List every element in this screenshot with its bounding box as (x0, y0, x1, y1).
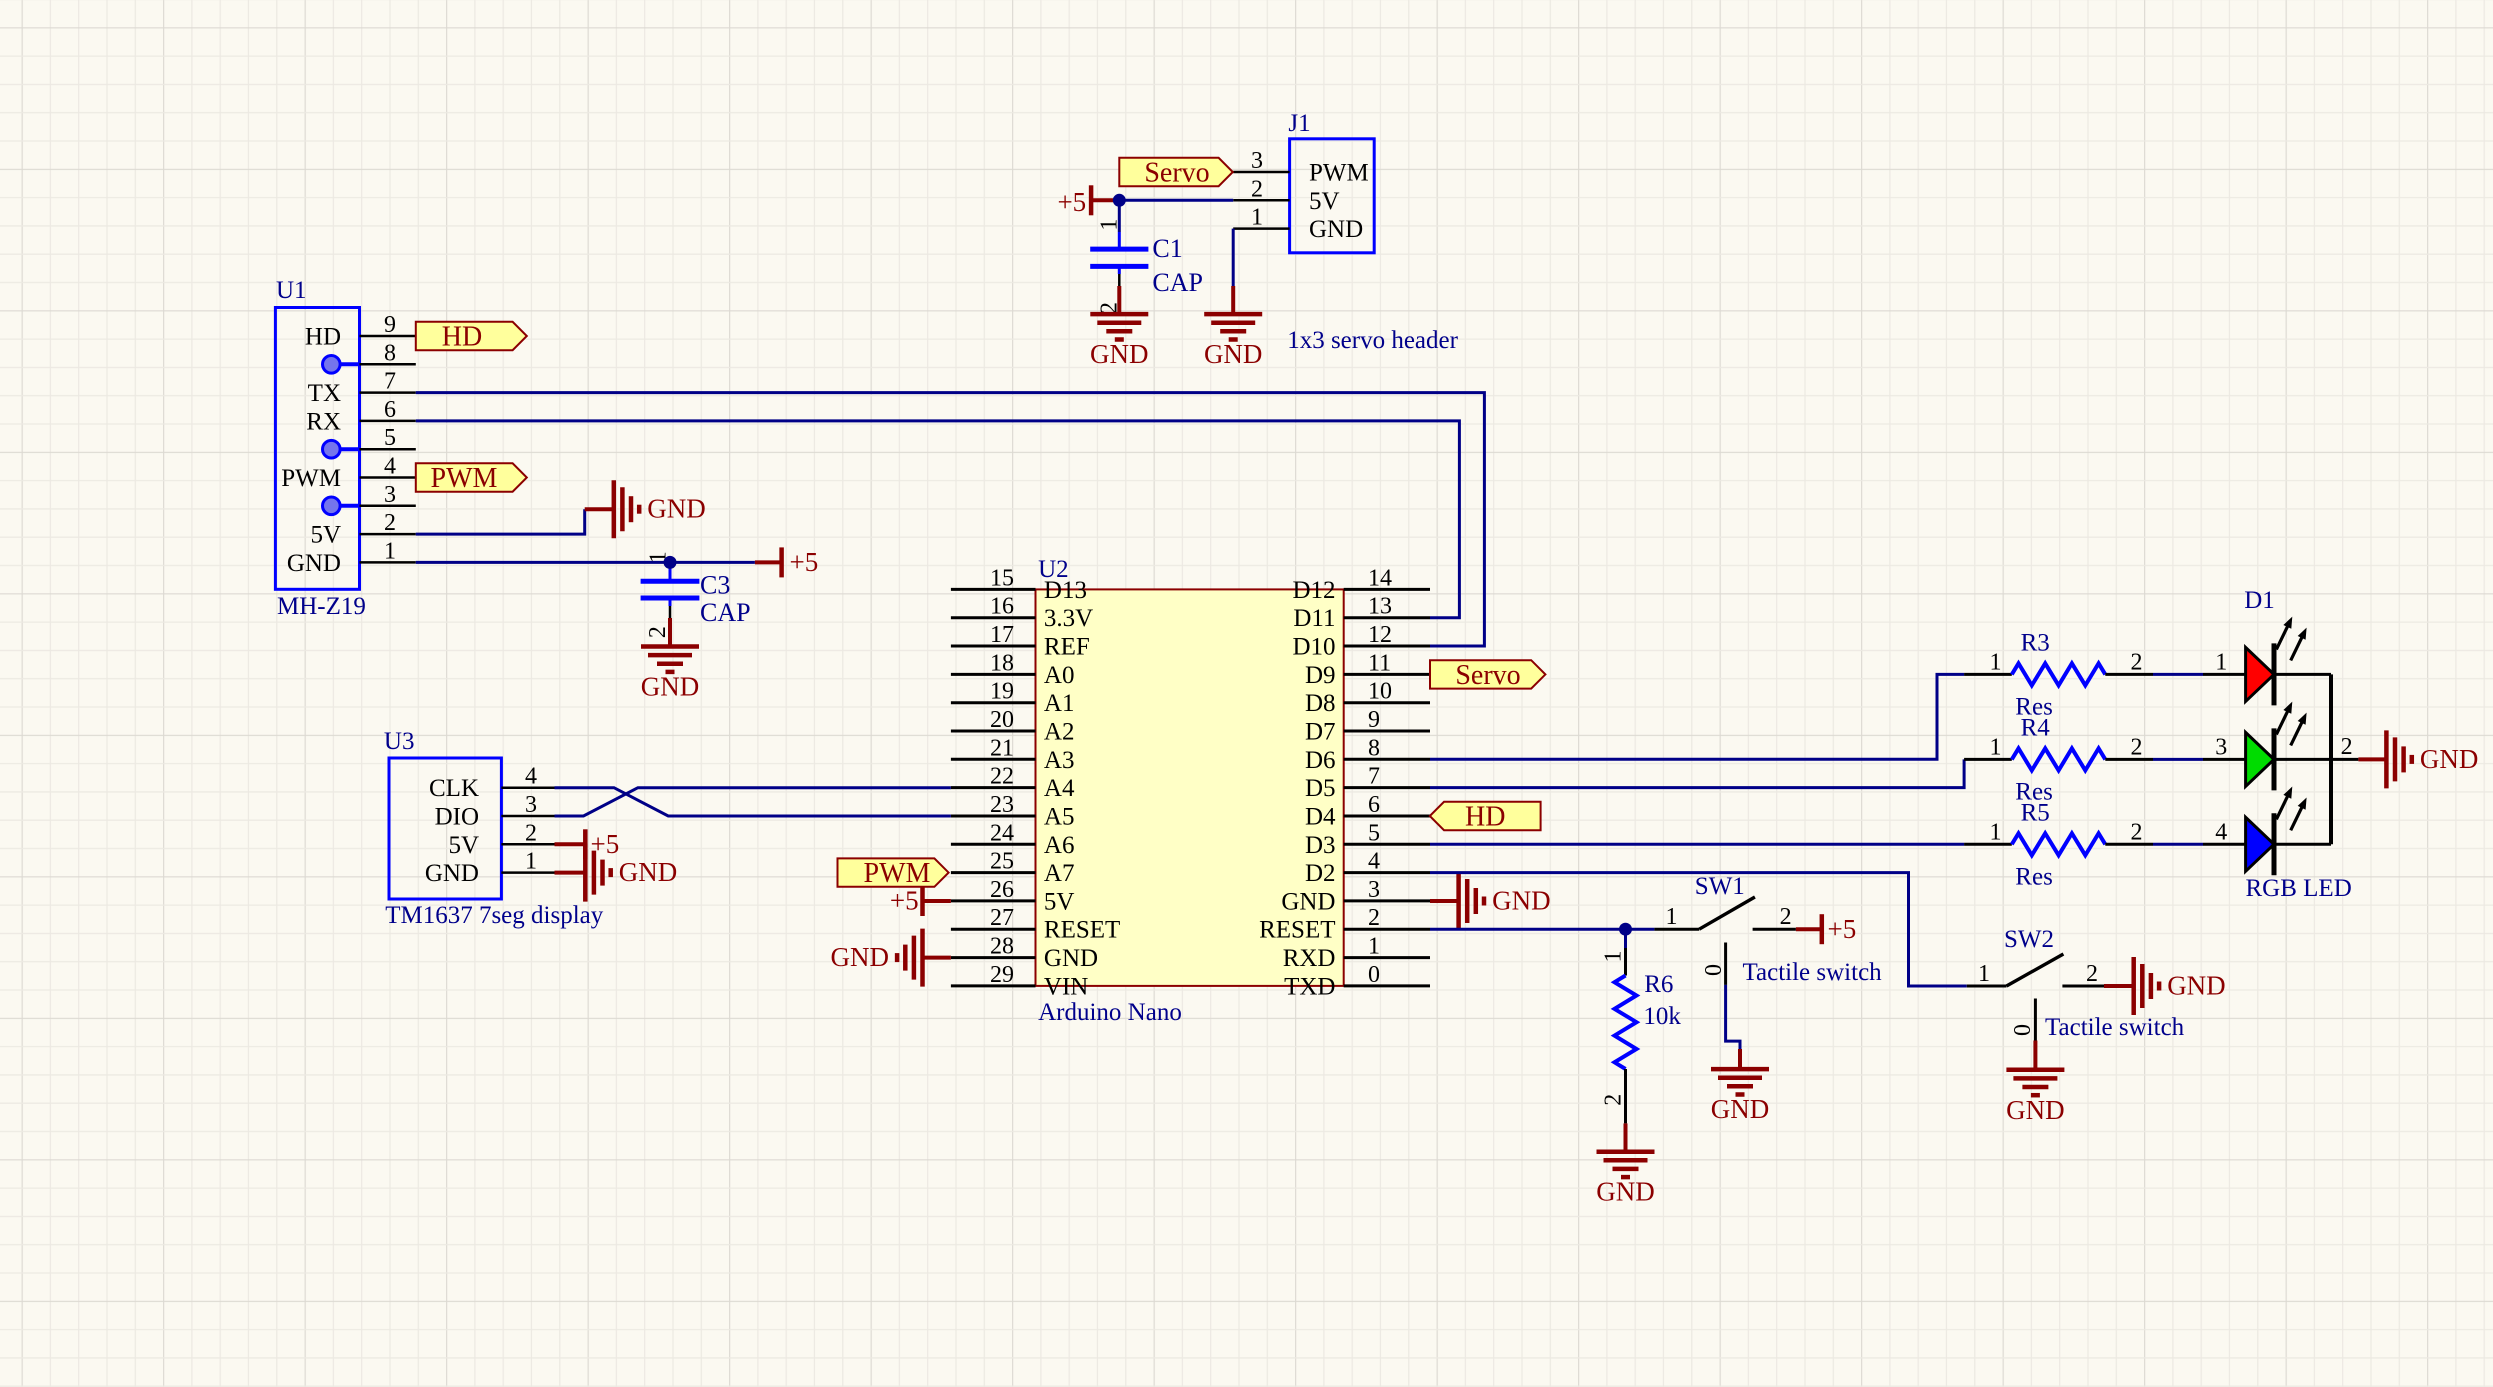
svg-text:3: 3 (384, 482, 396, 508)
harness label HD (U1 pin 9) (416, 322, 527, 350)
svg-text:Tactile switch: Tactile switch (1743, 959, 1883, 986)
U1 pin 6 (360, 420, 416, 423)
svg-text:RESET: RESET (1044, 917, 1120, 944)
svg-text:5V: 5V (448, 832, 479, 859)
svg-text:RESET: RESET (1259, 917, 1335, 944)
svg-text:GND: GND (2006, 1095, 2065, 1125)
svg-text:1: 1 (1251, 205, 1263, 231)
U2 pin 4 (D2) (1344, 871, 1430, 874)
wire U1 5V pin to GND (416, 509, 585, 534)
svg-text:8: 8 (384, 340, 396, 366)
J1 pin 1 (1233, 227, 1289, 230)
svg-text:GND: GND (1492, 886, 1551, 916)
svg-text:TM1637 7seg display: TM1637 7seg display (385, 902, 604, 929)
U1 no-connect dot (331, 362, 360, 366)
svg-text:1: 1 (525, 849, 537, 875)
svg-text:GND: GND (1281, 888, 1335, 915)
svg-text:MH-Z19: MH-Z19 (277, 593, 366, 620)
svg-text:2: 2 (645, 626, 671, 638)
ground below C3 (668, 618, 672, 647)
svg-text:10: 10 (1368, 679, 1392, 705)
svg-text:1: 1 (1978, 961, 1990, 987)
U1 pin 5 (360, 448, 416, 451)
harness label PWM (U1 pin 4) (416, 463, 527, 491)
svg-text:10k: 10k (1643, 1003, 1681, 1030)
svg-text:A6: A6 (1044, 832, 1075, 859)
svg-text:8: 8 (1368, 735, 1380, 761)
svg-text:D13: D13 (1044, 577, 1087, 604)
svg-text:GND: GND (647, 494, 706, 524)
svg-text:GND: GND (1044, 945, 1098, 972)
component U3 body (389, 758, 501, 899)
svg-text:11: 11 (1368, 650, 1391, 676)
svg-text:GND: GND (641, 672, 700, 702)
svg-text:HD: HD (305, 324, 341, 351)
svg-text:3: 3 (2215, 734, 2227, 760)
U2 pin 10 (D8) (1344, 701, 1430, 704)
ground below C1 (1117, 286, 1121, 314)
svg-text:GND: GND (2167, 971, 2226, 1001)
power +5 at SW1 pin 2 (1796, 927, 1822, 931)
svg-text:5: 5 (384, 425, 396, 451)
ground below SW1 (1738, 1049, 1742, 1069)
svg-text:3: 3 (1251, 148, 1263, 174)
wire U2 D6 to R3 (1430, 674, 1964, 759)
svg-text:A1: A1 (1044, 690, 1075, 717)
U1 no-connect dot (331, 504, 360, 508)
svg-text:+5: +5 (790, 547, 819, 577)
svg-text:2: 2 (2131, 649, 2143, 675)
svg-text:GND: GND (287, 550, 341, 577)
J1 pin 3 (1233, 171, 1289, 174)
svg-text:HD: HD (1465, 802, 1505, 833)
U2 pin 24 (A6) (951, 843, 1036, 846)
svg-text:2: 2 (2341, 734, 2353, 760)
ground (right-facing) at D1 pin 2 (2358, 757, 2386, 761)
svg-text:C3: C3 (700, 570, 730, 599)
svg-text:4: 4 (525, 764, 537, 790)
svg-text:GND: GND (425, 860, 479, 887)
svg-text:1: 1 (1990, 734, 2002, 760)
LED element pin 4 of D1 (2203, 787, 2331, 876)
svg-text:GND: GND (831, 942, 890, 972)
U2 pin 29 (VIN) (951, 984, 1036, 987)
svg-text:22: 22 (990, 764, 1014, 790)
svg-text:0: 0 (1368, 962, 1380, 988)
svg-text:4: 4 (384, 454, 396, 480)
U2 pin 27 (RESET) (951, 928, 1036, 931)
svg-text:GND: GND (1204, 339, 1263, 369)
U3 pin 4 (CLK) (501, 786, 554, 789)
svg-text:PWM: PWM (1309, 160, 1369, 187)
U2 pin 12 (D10) (1344, 645, 1430, 648)
ground below R6 (1624, 1123, 1628, 1151)
svg-text:+5: +5 (890, 886, 919, 916)
svg-text:7: 7 (1368, 764, 1380, 790)
svg-text:18: 18 (990, 650, 1014, 676)
svg-text:GND: GND (1596, 1177, 1655, 1207)
svg-text:Servo: Servo (1144, 158, 1209, 189)
U2 pin 0 (TXD) (1344, 984, 1430, 987)
svg-text:GND: GND (1309, 216, 1363, 243)
U2 pin 15 (D13) (951, 588, 1036, 591)
U1 pin 4 (360, 476, 416, 479)
U2 pin 14 (D12) (1344, 588, 1430, 591)
U2 pin 18 (A0) (951, 673, 1036, 676)
svg-text:A5: A5 (1044, 804, 1075, 831)
svg-text:19: 19 (990, 679, 1014, 705)
svg-text:17: 17 (990, 622, 1014, 648)
svg-text:5V: 5V (310, 522, 341, 549)
svg-text:A7: A7 (1044, 860, 1075, 887)
svg-text:1: 1 (1097, 219, 1123, 231)
U2 pin 28 (GND) (951, 956, 1036, 959)
power +5 at U3 pin 2 (555, 842, 586, 846)
wire J1 pin 1 to ground (1232, 229, 1235, 286)
U2 pin 6 (D4) (1344, 815, 1430, 818)
resistor R3 (1964, 629, 2153, 720)
harness label HD (U2 D4) (1430, 802, 1541, 830)
power +5 at J1 pin 2 (1091, 198, 1119, 202)
node junction RESET/R6/SW1 (1619, 923, 1632, 936)
LED element pin 1 of D1 (2203, 617, 2331, 706)
svg-text:D11: D11 (1293, 605, 1335, 632)
U3 pin 2 (5V) (501, 843, 554, 846)
svg-text:REF: REF (1044, 634, 1090, 661)
svg-text:D1: D1 (2244, 587, 2275, 614)
svg-text:6: 6 (384, 397, 396, 423)
U2 pin 3 (GND) (1344, 899, 1430, 902)
resistor R5 (1964, 799, 2153, 890)
svg-text:PWM: PWM (431, 463, 498, 494)
svg-text:Servo: Servo (1455, 660, 1520, 691)
svg-text:2: 2 (1780, 904, 1792, 930)
U3 pin 1 (GND) (501, 871, 554, 874)
svg-text:D8: D8 (1305, 690, 1336, 717)
wire U1 GND pin to +5 / C3 (416, 561, 755, 564)
svg-text:21: 21 (990, 735, 1014, 761)
component U1 body (275, 308, 359, 590)
svg-text:A2: A2 (1044, 719, 1075, 746)
svg-text:1: 1 (1666, 904, 1678, 930)
U2 pin 1 (RXD) (1344, 956, 1430, 959)
power +5 at U2 5V pin 26 (923, 899, 951, 903)
svg-text:GND: GND (2420, 744, 2479, 774)
svg-text:D4: D4 (1305, 804, 1336, 831)
wire U2 RESET to SW1 and R6 (1430, 928, 1654, 931)
svg-text:PWM: PWM (281, 465, 341, 492)
svg-text:D5: D5 (1305, 775, 1336, 802)
svg-text:PWM: PWM (864, 858, 931, 889)
wire R4 to LED (2153, 758, 2203, 761)
svg-text:DIO: DIO (435, 804, 479, 831)
svg-text:SW2: SW2 (2004, 926, 2054, 953)
wire U3 CLK to U2 A5 (crossover) (555, 788, 951, 816)
svg-text:RX: RX (306, 408, 341, 435)
power +5 at C3 net (755, 560, 782, 564)
svg-text:U1: U1 (276, 277, 307, 304)
component U2 body (1036, 589, 1344, 986)
svg-text:1: 1 (1368, 934, 1380, 960)
svg-text:1: 1 (1601, 951, 1627, 963)
svg-text:A4: A4 (1044, 775, 1075, 802)
svg-text:TX: TX (308, 380, 341, 407)
svg-text:Arduino Nano: Arduino Nano (1038, 999, 1182, 1026)
svg-text:C1: C1 (1152, 234, 1182, 263)
wire +5 to J1 pin 2 (1119, 199, 1233, 202)
svg-text:CAP: CAP (1152, 268, 1203, 297)
svg-text:0: 0 (1701, 964, 1727, 976)
wire R3 to LED (2153, 673, 2203, 676)
harness label PWM (U2 A7) (838, 858, 949, 886)
U2 pin 22 (A4) (951, 786, 1036, 789)
U2 pin 26 (5V) (951, 899, 1036, 902)
U2 pin 25 (A7) (951, 871, 1036, 874)
svg-text:D9: D9 (1305, 662, 1336, 689)
svg-text:R6: R6 (1644, 971, 1673, 998)
ground (right-facing) at U1 5V net (585, 507, 614, 511)
capacitor C1 (1090, 219, 1203, 314)
ground below SW2 pin 0 (2033, 1041, 2037, 1070)
svg-text:A3: A3 (1044, 747, 1075, 774)
svg-text:28: 28 (990, 934, 1014, 960)
U2 pin 2 (RESET) (1344, 928, 1430, 931)
svg-text:D2: D2 (1305, 860, 1336, 887)
svg-text:A0: A0 (1044, 662, 1075, 689)
svg-text:Tactile switch: Tactile switch (2045, 1014, 2185, 1041)
svg-text:5V: 5V (1044, 888, 1075, 915)
U1 pin 9 (360, 335, 416, 338)
svg-text:U3: U3 (384, 728, 415, 755)
svg-text:RGB LED: RGB LED (2246, 875, 2352, 902)
svg-text:9: 9 (1368, 707, 1380, 733)
U1 pin 2 (360, 533, 416, 536)
U2 pin 5 (D3) (1344, 843, 1430, 846)
svg-text:2: 2 (1601, 1094, 1627, 1106)
svg-text:D7: D7 (1305, 719, 1336, 746)
svg-text:27: 27 (990, 905, 1014, 931)
D1 pin 2 (2331, 758, 2358, 761)
wire SW1 pin 0 to ground (1726, 985, 1740, 1049)
U2 pin 23 (A5) (951, 815, 1036, 818)
U1 no-connect dot (331, 447, 360, 451)
svg-text:D10: D10 (1292, 634, 1335, 661)
U2 pin 17 (REF) (951, 645, 1036, 648)
svg-text:4: 4 (1368, 849, 1380, 875)
svg-text:12: 12 (1368, 622, 1392, 648)
svg-text:3.3V: 3.3V (1044, 605, 1093, 632)
svg-text:23: 23 (990, 792, 1014, 818)
wire U2 D3 to R5 (1430, 843, 1964, 846)
svg-text:SW1: SW1 (1695, 873, 1745, 900)
D1 common cathode bus (2329, 674, 2333, 844)
U1 pin 1 (360, 561, 416, 564)
svg-text:1: 1 (1990, 649, 2002, 675)
U2 pin 21 (A3) (951, 758, 1036, 761)
U2 pin 13 (D11) (1344, 616, 1430, 619)
U2 pin 9 (D7) (1344, 730, 1430, 733)
svg-text:16: 16 (990, 594, 1014, 620)
wire R5 to LED (2153, 843, 2203, 846)
svg-text:TXD: TXD (1284, 973, 1335, 1000)
wire junction down to C1 (1118, 200, 1121, 232)
wire U2 D2 to SW2 (1430, 873, 1967, 986)
svg-text:+5: +5 (1057, 187, 1086, 217)
svg-text:D12: D12 (1292, 577, 1335, 604)
svg-text:2: 2 (384, 510, 396, 536)
wire U2 D5 to R4 (1430, 759, 1964, 787)
svg-text:26: 26 (990, 877, 1014, 903)
svg-text:0: 0 (2010, 1024, 2036, 1036)
svg-text:1: 1 (384, 538, 396, 564)
svg-text:15: 15 (990, 565, 1014, 591)
svg-text:J1: J1 (1288, 110, 1310, 137)
svg-text:1x3 servo header: 1x3 servo header (1287, 327, 1458, 354)
svg-text:1: 1 (2215, 649, 2227, 675)
svg-text:GND: GND (1711, 1094, 1770, 1124)
switch SW2 (1967, 926, 2185, 1041)
svg-text:29: 29 (990, 962, 1014, 988)
svg-text:HD: HD (442, 322, 482, 353)
ground below J1 pin 1 (1231, 286, 1235, 314)
resistor R6 10k (1601, 948, 1682, 1123)
harness label Servo (J1 pin 3) (1119, 158, 1233, 186)
svg-text:GND: GND (619, 857, 678, 887)
U2 pin 16 (3.3V) (951, 616, 1036, 619)
svg-text:2: 2 (1368, 905, 1380, 931)
svg-text:24: 24 (990, 820, 1014, 846)
svg-text:VIN: VIN (1044, 973, 1088, 1000)
U3 pin 3 (DIO) (501, 815, 554, 818)
U1 pin 3 (360, 505, 416, 508)
svg-text:4: 4 (2215, 819, 2227, 845)
svg-text:6: 6 (1368, 792, 1380, 818)
svg-text:2: 2 (2131, 734, 2143, 760)
svg-text:CAP: CAP (700, 598, 751, 627)
ground (right-facing) at SW2 pin 2 (2104, 984, 2134, 988)
svg-text:25: 25 (990, 849, 1014, 875)
U2 pin 11 (D9) (1344, 673, 1430, 676)
ground (left-facing) at U2 GND pin 28 (924, 956, 951, 960)
svg-text:3: 3 (1368, 877, 1380, 903)
wire TX to D10 (416, 393, 1485, 646)
svg-text:2: 2 (1251, 176, 1263, 202)
node junction at C1 (1113, 194, 1126, 207)
resistor R4 (1964, 714, 2153, 805)
svg-text:Res: Res (2015, 863, 2053, 890)
wire U3 DIO to U2 A4 (crossover) (555, 788, 951, 816)
wire RX to D11 (416, 421, 1460, 618)
svg-text:D3: D3 (1305, 832, 1336, 859)
node junction at C3 (664, 556, 677, 569)
svg-text:2: 2 (2086, 961, 2098, 987)
U1 pin 8 (360, 363, 416, 366)
svg-text:GND: GND (1090, 339, 1149, 369)
wire junction to R6 (1624, 929, 1627, 948)
svg-text:2: 2 (2131, 819, 2143, 845)
svg-text:5V: 5V (1309, 188, 1340, 215)
svg-text:+5: +5 (1828, 914, 1857, 944)
svg-text:14: 14 (1368, 565, 1392, 591)
U1 pin 7 (360, 391, 416, 394)
capacitor C3 (641, 551, 751, 638)
U2 pin 8 (D6) (1344, 758, 1430, 761)
svg-text:5: 5 (1368, 820, 1380, 846)
svg-text:R3: R3 (2021, 629, 2050, 656)
svg-text:3: 3 (525, 792, 537, 818)
svg-text:CLK: CLK (429, 775, 479, 802)
svg-text:13: 13 (1368, 594, 1392, 620)
svg-text:2: 2 (525, 820, 537, 846)
svg-text:R5: R5 (2021, 799, 2050, 826)
svg-text:D6: D6 (1305, 747, 1336, 774)
U2 pin 7 (D5) (1344, 786, 1430, 789)
svg-text:20: 20 (990, 707, 1014, 733)
LED element pin 3 of D1 (2203, 702, 2331, 791)
J1 pin 2 (1233, 199, 1289, 202)
svg-text:7: 7 (384, 369, 396, 395)
ground (right-facing) at U2 GND pin 3 (1430, 899, 1459, 903)
component J1 body (1290, 139, 1375, 253)
switch SW1 (1654, 873, 1882, 986)
svg-text:9: 9 (384, 312, 396, 338)
ground (right-facing) at U3 pin 1 (555, 871, 586, 875)
svg-text:R4: R4 (2021, 714, 2051, 741)
harness label Servo (U2 D9) (1430, 660, 1545, 688)
U2 pin 20 (A2) (951, 730, 1036, 733)
svg-text:1: 1 (1990, 819, 2002, 845)
U2 pin 19 (A1) (951, 701, 1036, 704)
svg-text:RXD: RXD (1283, 945, 1336, 972)
